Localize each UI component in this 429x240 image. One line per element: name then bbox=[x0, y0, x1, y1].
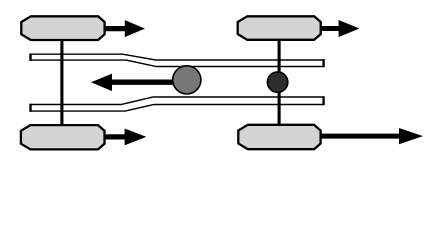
gray circle (center of gravity) bbox=[173, 66, 201, 94]
wheel front-right bbox=[238, 16, 321, 40]
big leftward force arrow bbox=[91, 74, 186, 92]
wheel rear-right bbox=[238, 125, 320, 149]
bottom rail right end cap bbox=[322, 96, 324, 105]
velocity arrow front-left wheel bbox=[103, 20, 145, 37]
top rail right end cap bbox=[322, 59, 324, 67]
bottom frame rail bbox=[30, 97, 323, 111]
wheel front-left bbox=[21, 16, 104, 40]
left axle bbox=[60, 39, 63, 126]
bottom rail left end cap bbox=[29, 104, 31, 112]
velocity arrow front-right wheel bbox=[319, 20, 360, 37]
dark circle (pivot point) bbox=[267, 72, 287, 92]
top rail left end cap bbox=[29, 54, 31, 61]
velocity arrow rear-right wheel (long) bbox=[319, 128, 423, 144]
wheel rear-left bbox=[21, 125, 105, 149]
velocity arrow rear-left wheel bbox=[103, 129, 146, 146]
right axle bbox=[278, 39, 281, 126]
top frame rail bbox=[30, 54, 323, 66]
